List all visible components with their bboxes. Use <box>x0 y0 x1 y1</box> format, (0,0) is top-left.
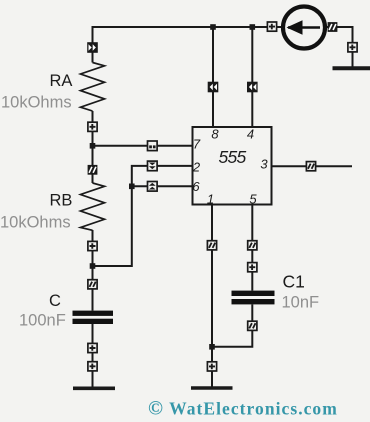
wire pin 1 to ground <box>211 205 213 388</box>
pin marker C1 bottom <box>248 321 257 330</box>
svg-text:10nF: 10nF <box>282 294 320 312</box>
wire pin 7 to RA/RB junction <box>93 145 193 147</box>
ground (bottom left) <box>73 386 115 390</box>
svg-text:6: 6 <box>192 179 200 194</box>
wire RA bottom to RB top <box>92 111 94 183</box>
pin marker RB bottom <box>88 241 97 250</box>
wire pin 8 to top rail <box>212 27 214 127</box>
capacitor C <box>73 311 114 324</box>
ground (top right) <box>333 66 370 70</box>
pin marker pin 1 wire <box>207 241 216 250</box>
capacitor C1 <box>232 291 275 305</box>
svg-text:RA: RA <box>50 72 73 90</box>
svg-text:10kOhms: 10kOhms <box>1 93 72 111</box>
node junction RB/C <box>90 263 96 269</box>
pin marker pin 7 <box>148 141 158 151</box>
wire pin 3 output <box>272 165 353 167</box>
current source (circle with arrow) <box>283 7 325 49</box>
wire current source to top-right ground <box>326 27 353 67</box>
pin marker C bottom <box>88 343 97 352</box>
pin marker pin 6 <box>148 182 158 192</box>
pin marker current source right <box>328 22 338 32</box>
resistor RA <box>81 63 105 112</box>
pin marker top-right ground <box>348 43 357 52</box>
wire pin 5 to capacitor C1 <box>251 205 253 291</box>
node junction top pin4 <box>250 24 256 30</box>
pin marker pin 8 wire <box>208 82 219 93</box>
pin marker C1 top <box>248 263 257 272</box>
node junction pin1/C1 <box>209 344 215 350</box>
wire pin 6 <box>132 185 193 187</box>
node junction pin2/pin6 <box>129 184 135 190</box>
pin marker left ground <box>88 362 97 371</box>
wire pin 2 down to RB/C junction <box>93 166 193 266</box>
op-amp U1 555 timer body <box>193 127 272 205</box>
pin marker mid ground <box>207 362 216 371</box>
svg-text:7: 7 <box>193 137 201 152</box>
svg-text:© WatElectronics.com: © WatElectronics.com <box>148 398 338 420</box>
wire RB bottom to capacitor C <box>92 230 94 311</box>
svg-text:8: 8 <box>211 127 219 142</box>
pin marker pin 3 <box>306 162 315 171</box>
svg-text:3: 3 <box>260 157 268 172</box>
svg-text:555: 555 <box>218 147 246 167</box>
svg-text:5: 5 <box>249 192 257 207</box>
pin marker current source left <box>267 22 276 31</box>
resistor RB <box>81 183 105 230</box>
pin marker pin 4 wire <box>247 82 258 93</box>
pin marker RB top <box>88 165 98 175</box>
svg-text:100nF: 100nF <box>19 311 66 329</box>
svg-text:C1: C1 <box>283 272 305 292</box>
wire capacitor C to ground <box>92 324 94 387</box>
svg-text:2: 2 <box>192 160 201 175</box>
node junction top pin8 <box>210 24 216 30</box>
pin marker RA bottom <box>88 122 97 131</box>
svg-text:RB: RB <box>50 192 73 210</box>
pin marker C top <box>88 280 97 289</box>
pin marker RA top <box>87 42 98 53</box>
wire pin 4 to top rail <box>251 27 253 127</box>
node junction RA/RB/pin7 <box>90 143 96 149</box>
wire top rail Vcc <box>93 27 284 63</box>
pin marker pin 5 wire <box>248 241 257 250</box>
svg-text:1: 1 <box>207 192 214 207</box>
svg-text:4: 4 <box>247 127 254 142</box>
pin marker pin 2 <box>148 161 158 171</box>
svg-text:C: C <box>49 292 61 310</box>
wire capacitor C1 to pin-1 ground wire <box>212 305 252 347</box>
svg-text:10kOhms: 10kOhms <box>0 213 71 231</box>
ground (bottom middle) <box>191 386 233 390</box>
